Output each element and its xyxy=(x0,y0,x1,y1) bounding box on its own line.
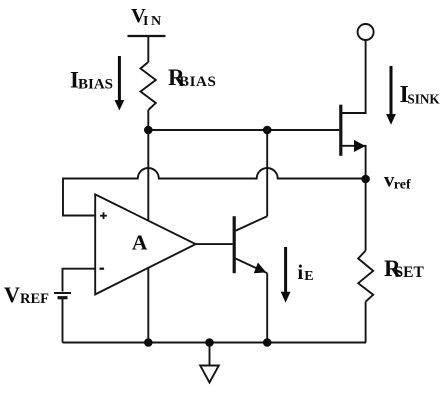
svg-text:SET: SET xyxy=(395,264,425,281)
svg-text:V: V xyxy=(4,282,20,307)
svg-text:IN: IN xyxy=(143,14,164,29)
svg-text:SINK: SINK xyxy=(407,92,440,107)
svg-text:A: A xyxy=(132,231,148,255)
svg-text:i: i xyxy=(297,260,303,284)
svg-text:REF: REF xyxy=(20,291,49,307)
svg-text:E: E xyxy=(304,269,313,284)
svg-text:BIAS: BIAS xyxy=(179,74,216,90)
svg-text:ref: ref xyxy=(394,178,411,193)
svg-text:BIAS: BIAS xyxy=(78,77,113,93)
